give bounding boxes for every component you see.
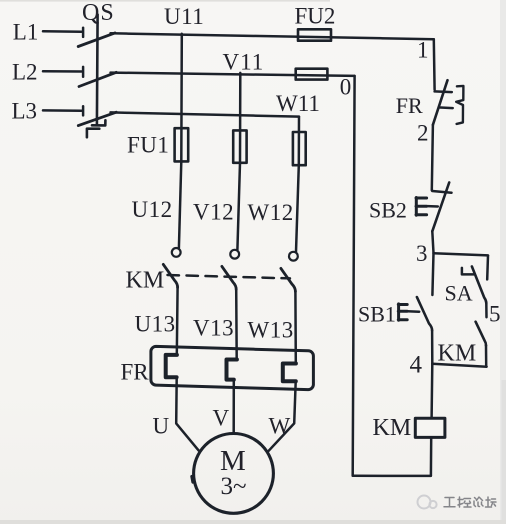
svg-text:FU2: FU2 xyxy=(295,4,336,29)
fuse FU1 phase W body xyxy=(293,132,306,165)
svg-text:V12: V12 xyxy=(193,200,234,225)
svg-text:2: 2 xyxy=(417,121,429,146)
wire U13 xyxy=(176,287,179,356)
svg-text:W: W xyxy=(269,414,291,439)
wire W12 xyxy=(296,165,299,252)
wire node 5 segment xyxy=(485,303,488,317)
relay FR heater V xyxy=(227,360,237,380)
svg-text:U11: U11 xyxy=(164,4,204,29)
wire node 3 bar xyxy=(434,253,489,255)
wire node 0 drop xyxy=(353,76,355,476)
motor M circle xyxy=(194,434,274,514)
svg-text:U13: U13 xyxy=(135,312,176,337)
node L2 contact tick xyxy=(82,67,85,77)
contactor KM pole V blade xyxy=(222,266,236,289)
relay FR heater U xyxy=(166,355,177,377)
fuse FU1 phase V body xyxy=(233,130,246,162)
wire W to motor xyxy=(268,381,295,451)
relay FR box xyxy=(151,346,314,389)
button SB1 actuator link xyxy=(407,310,419,313)
scan edge artifact top xyxy=(0,0,330,2)
node L3 contact tick xyxy=(82,106,85,115)
wire U to motor xyxy=(176,377,199,450)
svg-text:FR: FR xyxy=(396,93,423,118)
svg-text:FU1: FU1 xyxy=(127,133,169,158)
contactor KM pole U terminal circle xyxy=(172,248,181,257)
svg-text:KM: KM xyxy=(438,341,477,367)
button SB1 blade xyxy=(417,297,432,330)
wire KM aux to node 4 xyxy=(485,345,488,366)
svg-text:W11: W11 xyxy=(276,91,320,116)
wire node 4 bar xyxy=(432,364,486,367)
svg-text:U: U xyxy=(153,414,170,439)
relay FR contact link stub xyxy=(440,106,452,109)
switch QS pole 2 blade xyxy=(79,72,116,86)
contactor KM pole V terminal circle xyxy=(230,250,239,259)
contactor KM pole U blade xyxy=(163,264,177,287)
wire node 4 to coil xyxy=(430,364,433,419)
wire node 2 segment xyxy=(432,125,433,191)
relay FR contact hook symbol xyxy=(456,86,463,124)
wire L2 lead xyxy=(43,70,82,73)
wire V13 xyxy=(235,289,238,360)
wire V to motor xyxy=(232,380,235,434)
coil KM body xyxy=(415,418,445,437)
contactor KM pole W terminal circle xyxy=(289,252,298,261)
button SB2 fixed tick xyxy=(432,191,451,193)
contact KM auxiliary blade xyxy=(476,322,486,346)
wire L3 lead xyxy=(43,109,82,112)
wire W11 drop xyxy=(298,117,301,166)
button SB2 actuator link dash xyxy=(428,205,438,208)
wire W13 xyxy=(294,291,297,364)
svg-text:W12: W12 xyxy=(248,200,294,225)
svg-text:0: 0 xyxy=(340,75,352,100)
node L1 contact tick xyxy=(82,28,85,37)
wire node 3 to SB1 xyxy=(432,253,433,295)
wire U11 drop xyxy=(180,34,183,162)
switch QS handle step 2 xyxy=(87,129,99,138)
switch QS handle step 1 xyxy=(92,120,105,125)
svg-text:3: 3 xyxy=(416,241,428,266)
svg-text:SB1: SB1 xyxy=(358,302,396,327)
wire U12 xyxy=(179,161,181,248)
svg-text:3~: 3~ xyxy=(221,473,247,500)
wire L2 bus to fuse and node 0 corner xyxy=(111,73,355,76)
fuse FU1 phase U body xyxy=(175,128,189,161)
svg-text:SA: SA xyxy=(445,281,473,306)
svg-text:KM: KM xyxy=(126,268,165,294)
wire V11 drop xyxy=(239,73,242,163)
watermark logo xyxy=(418,496,437,509)
svg-text:V: V xyxy=(213,406,230,431)
button SB2 blade xyxy=(432,183,449,232)
wire SA branch drop xyxy=(486,256,489,280)
relay FR heater W xyxy=(283,364,296,382)
svg-text:4: 4 xyxy=(410,352,423,379)
relay FR contact fixed tick xyxy=(435,90,452,93)
svg-text:FR: FR xyxy=(121,360,150,385)
wire L3 bus to W11 corner xyxy=(111,112,300,116)
wire V12 xyxy=(237,163,240,250)
svg-text:1: 1 xyxy=(417,38,429,63)
contactor KM pole W blade xyxy=(281,268,296,291)
contactor KM linkage dashed xyxy=(168,275,291,278)
svg-text:L1: L1 xyxy=(13,20,39,45)
svg-text:L3: L3 xyxy=(12,99,38,124)
wire L1 lead xyxy=(43,30,82,33)
button SB2 actuator E xyxy=(416,198,427,216)
button SB1 actuator E xyxy=(398,304,407,320)
svg-text:U12: U12 xyxy=(132,197,173,222)
fuse FU2 body xyxy=(298,29,331,40)
svg-text:QS: QS xyxy=(82,0,115,26)
wire bottom return bar xyxy=(353,475,431,478)
fuse FU2 second body xyxy=(296,69,328,80)
svg-text:5: 5 xyxy=(489,302,501,327)
wire L1 bus to FU2 and node 1 xyxy=(111,33,434,39)
switch QS pole 3 blade xyxy=(78,112,116,125)
svg-text:SB2: SB2 xyxy=(369,198,407,223)
watermark text gongkong luntan xyxy=(444,497,496,507)
wire coil to bottom bar xyxy=(430,437,433,475)
switch SA fixed tick xyxy=(462,268,474,275)
svg-text:V11: V11 xyxy=(223,50,265,75)
svg-text:V13: V13 xyxy=(193,316,234,341)
scan edge artifact right xyxy=(500,0,506,524)
wire SB2 to node 3 xyxy=(432,231,433,253)
switch SA blade xyxy=(472,267,486,304)
svg-text:L2: L2 xyxy=(12,60,38,85)
wire node 1 drop xyxy=(433,39,436,89)
svg-text:KM: KM xyxy=(373,415,412,441)
svg-text:W13: W13 xyxy=(248,318,294,343)
scan edge artifact bottom xyxy=(0,520,506,524)
motor rim blemish xyxy=(192,477,193,483)
switch QS pole 1 blade xyxy=(78,33,115,47)
relay FR contact blade xyxy=(433,80,448,125)
switch QS linkage bar xyxy=(96,15,99,126)
wire SB1 to node 4 xyxy=(431,330,434,363)
